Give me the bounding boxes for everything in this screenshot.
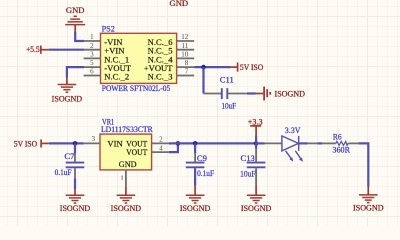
svg-text:C13: C13 [240, 153, 254, 163]
ground ISOGND under C9 [180, 186, 211, 214]
ground ISOGND under VR1 [111, 187, 142, 213]
capacitor C9 [186, 143, 214, 185]
svg-text:12: 12 [181, 33, 189, 41]
power port +5.5 [26, 44, 49, 54]
pin 6 N.C._2 [84, 68, 130, 82]
wire GND to PS2 pin 1 [75, 32, 84, 41]
pin 12 N.C._6 [148, 33, 195, 47]
svg-text:+5.5: +5.5 [26, 44, 40, 54]
wire rail to LED anode [256, 142, 265, 144]
svg-text:5: 5 [90, 59, 94, 67]
LED 3.3V [265, 125, 318, 162]
node junction at pin 8 net [201, 65, 206, 70]
svg-text:ISOGND: ISOGND [60, 203, 91, 213]
pin 2 +VIN [84, 42, 126, 56]
svg-text:2: 2 [159, 136, 163, 144]
svg-text:0.1uF: 0.1uF [197, 168, 214, 178]
capacitor C13 [240, 143, 265, 185]
svg-text:ISOGND: ISOGND [180, 203, 211, 213]
wire LED to R6 [318, 142, 323, 144]
svg-text:PS2: PS2 [102, 23, 115, 33]
capacitor C11 [204, 74, 247, 110]
wire 5V ISO to VR1 VIN [49, 142, 84, 144]
pin 11 N.C._5 [148, 42, 195, 56]
svg-text:ISOGND: ISOGND [52, 94, 83, 104]
svg-text:5V ISO: 5V ISO [240, 62, 263, 72]
pin 1 -VIN [84, 33, 124, 47]
ground ISOGND under R6 [353, 187, 384, 213]
power port 5V ISO left [14, 139, 49, 149]
svg-text:10uF: 10uF [240, 169, 256, 179]
pin 7 N.C._3 [148, 68, 195, 82]
VR1 pin 1 GND [119, 159, 137, 187]
svg-text:6: 6 [90, 68, 94, 76]
svg-text:POWER SFTN02L-05: POWER SFTN02L-05 [102, 83, 171, 93]
wire C11 to ISOGND [247, 92, 256, 94]
pin 10 N.C._4 [148, 51, 195, 65]
svg-text:11: 11 [181, 42, 188, 50]
ground ISOGND right of C11 (rotated) [256, 87, 305, 101]
svg-text:VIN: VIN [107, 139, 123, 149]
ground ISOGND under C7 [60, 189, 91, 213]
svg-text:ISOGND: ISOGND [353, 202, 384, 212]
svg-text:LD1117S33CTR: LD1117S33CTR [101, 124, 153, 134]
wire PS2 pin 8 to 5V ISO [194, 66, 231, 68]
svg-text:N.C._3: N.C._3 [148, 71, 173, 81]
wire +3.3 to rail [255, 136, 257, 144]
svg-text:N.C._2: N.C._2 [104, 71, 129, 81]
regulator VR1 body [100, 134, 152, 170]
power port 5V ISO top [231, 62, 263, 72]
VR1 pin 3 VIN [84, 135, 124, 149]
ground ISOGND under C13 [241, 186, 272, 214]
pin 5 -VOUT [84, 59, 132, 73]
pin 8 +VOUT [144, 59, 194, 73]
svg-text:GND: GND [169, 0, 188, 8]
svg-text:8: 8 [185, 59, 189, 67]
power port GND top-left [65, 5, 85, 32]
svg-text:VOUT: VOUT [126, 147, 148, 157]
svg-text:C9: C9 [197, 153, 207, 163]
wire 3.3V output rail [169, 142, 256, 144]
node junction +3.3 / C13 tap [254, 141, 259, 146]
wire R6 to ISOGND [358, 143, 368, 186]
capacitor C7 [55, 143, 85, 189]
svg-text:360R: 360R [332, 144, 350, 154]
node junction C7 tap [73, 141, 78, 146]
svg-text:3: 3 [92, 135, 96, 143]
svg-text:GND: GND [119, 159, 137, 169]
wire +5.5 to PS2 pin 2 [49, 49, 84, 51]
svg-text:0.1uF: 0.1uF [55, 167, 72, 177]
svg-text:4: 4 [159, 144, 163, 152]
svg-text:GND: GND [66, 5, 85, 15]
VR1 pin 2 VOUT [126, 136, 169, 149]
svg-text:3.3V: 3.3V [285, 125, 302, 135]
svg-text:C7: C7 [64, 151, 75, 161]
svg-text:1: 1 [90, 33, 94, 41]
power port +3.3 [248, 117, 263, 137]
svg-text:10: 10 [181, 51, 189, 59]
svg-text:+3.3: +3.3 [248, 117, 263, 127]
svg-text:10uF: 10uF [222, 101, 237, 111]
svg-text:1: 1 [121, 176, 124, 182]
svg-text:ISOGND: ISOGND [275, 88, 306, 98]
node junction VR1 output [176, 141, 181, 146]
svg-text:ISOGND: ISOGND [111, 203, 142, 213]
svg-text:C11: C11 [220, 74, 234, 84]
svg-text:2: 2 [90, 42, 94, 50]
pin 3 N.C._1 [84, 51, 130, 65]
svg-text:ISOGND: ISOGND [241, 203, 272, 213]
wire junction down to C11 [202, 67, 204, 93]
wire VR1 pin4 up to output [169, 143, 178, 152]
svg-text:5V ISO: 5V ISO [14, 139, 37, 149]
power module PS2 body [101, 33, 177, 83]
ground ISOGND at PS2 pin 5 [52, 77, 83, 104]
wire PS2 pin 5 to ISOGND [67, 67, 84, 77]
node junction C9 tap [193, 141, 198, 146]
svg-text:7: 7 [185, 68, 189, 76]
VR1 pin 4 VOUT [126, 144, 169, 157]
resistor R6 [322, 131, 359, 154]
svg-text:R6: R6 [333, 131, 342, 141]
svg-text:3: 3 [90, 51, 94, 59]
